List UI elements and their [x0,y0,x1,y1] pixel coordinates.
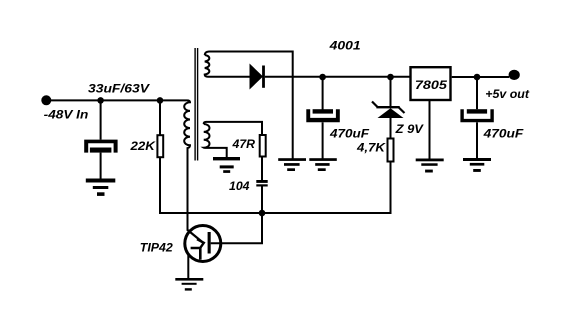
svg-text:TIP42: TIP42 [140,240,173,254]
svg-text:47R: 47R [231,137,255,151]
svg-text:470uF: 470uF [483,126,524,140]
svg-text:104: 104 [229,179,250,193]
svg-text:Z 9V: Z 9V [395,122,424,136]
svg-text:-48V In: -48V In [44,108,89,122]
svg-text:4,7K: 4,7K [356,141,387,155]
svg-text:7805: 7805 [415,78,447,92]
svg-text:+5v out: +5v out [485,87,530,101]
svg-text:22K: 22K [129,139,156,153]
svg-text:4001: 4001 [328,39,361,53]
svg-text:470uF: 470uF [329,126,370,140]
svg-text:33uF/63V: 33uF/63V [88,81,150,95]
